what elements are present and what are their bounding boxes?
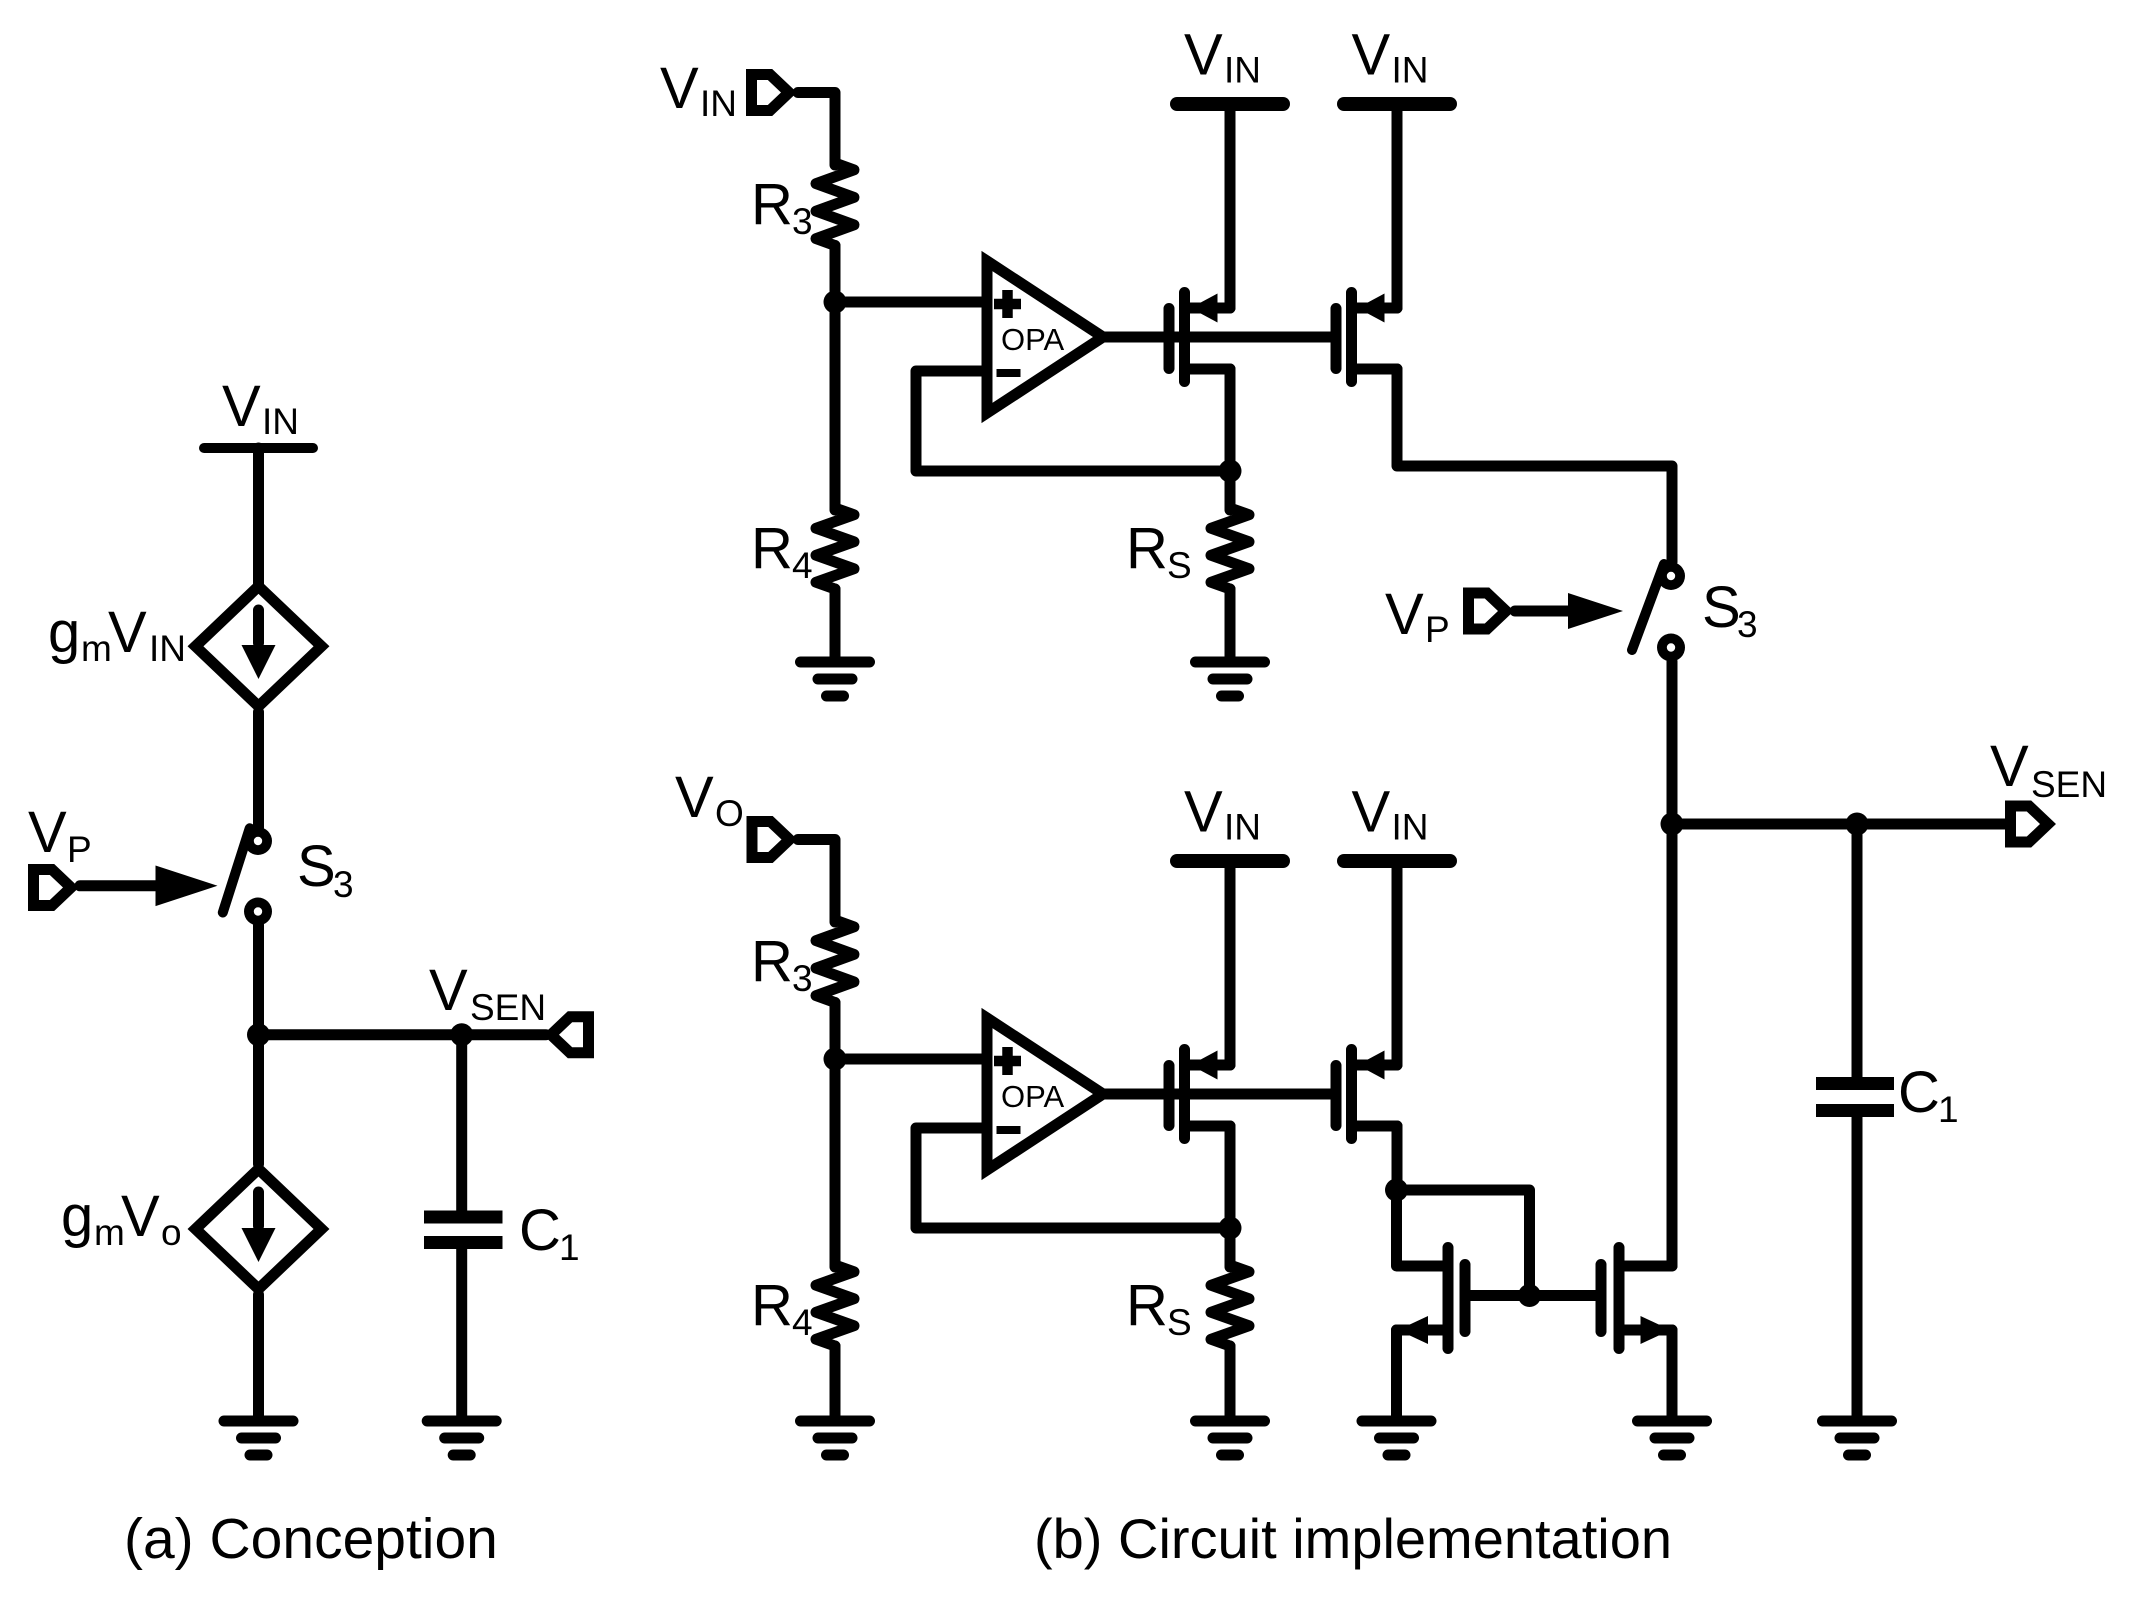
svg-text:P: P	[67, 829, 92, 870]
nmos N2 mirror output (b lower)	[1601, 1248, 1672, 1349]
label S3 (b)	[1702, 575, 1758, 645]
label VIN input port (b upper)	[660, 56, 737, 124]
svg-text:S: S	[1167, 545, 1192, 586]
control arrow VP to S3 (b)	[1515, 593, 1623, 629]
svg-text:IN: IN	[262, 401, 299, 442]
svg-text:3: 3	[333, 864, 354, 905]
svg-text:O: O	[715, 793, 744, 834]
value label C1 (b)	[1898, 1060, 1959, 1130]
svg-text:V: V	[429, 958, 468, 1023]
ground under N2 (b lower)	[1638, 1421, 1707, 1455]
wire M3 drain to RS junction (b lower)	[1225, 1126, 1236, 1228]
svg-text:1: 1	[1938, 1089, 1959, 1130]
wire C1 to ground (b)	[1852, 1116, 1863, 1416]
wire junction to R4 (b upper)	[830, 302, 841, 510]
ground under N1 (b lower)	[1362, 1421, 1431, 1455]
label VP (a)	[28, 800, 92, 870]
wire node VSEN down to NMOS drain (b)	[1667, 824, 1678, 1266]
ground under C1 (a)	[427, 1421, 496, 1455]
ground under RS (b lower)	[1196, 1421, 1265, 1455]
ground under C1 (b)	[1823, 1421, 1892, 1455]
svg-text:R: R	[1126, 1273, 1168, 1338]
wire junction to RS (b upper)	[1225, 471, 1236, 510]
dependent current source gmVo (diamond)	[196, 1169, 322, 1289]
svg-text:V: V	[1184, 780, 1223, 845]
label R4 (b lower)	[751, 1273, 813, 1343]
pmos M2 (b upper)	[1336, 293, 1397, 382]
ground under gmVo (a)	[224, 1421, 293, 1455]
junction R3-R4-opamp (b lower)	[824, 1048, 847, 1071]
label RS (b upper)	[1126, 516, 1192, 586]
resistor R4 (b upper)	[816, 508, 854, 589]
net VIN rail M3 (b lower)	[1177, 854, 1283, 868]
junction node VSEN at C1 (b)	[1846, 813, 1869, 836]
svg-text:g: g	[61, 1184, 93, 1249]
wire N2 source to ground (b lower)	[1667, 1330, 1678, 1416]
svg-text:C: C	[519, 1198, 561, 1263]
wire switch S3 to node VSEN (b)	[1667, 662, 1678, 825]
svg-text:V: V	[660, 56, 699, 121]
wire VIN rail to gmVIN source (a)	[253, 448, 264, 585]
svg-text:V: V	[1352, 780, 1391, 845]
current arrow inside gmVo	[242, 1192, 276, 1262]
net VIN rail M1 (b upper)	[1177, 97, 1283, 111]
ground under RS (b upper)	[1196, 662, 1265, 696]
svg-text:(a) Conception: (a) Conception	[124, 1507, 498, 1571]
pmos M1 (b upper)	[1169, 293, 1230, 382]
svg-text:IN: IN	[1392, 50, 1429, 91]
wire RS to ground (b lower)	[1225, 1346, 1236, 1416]
svg-text:R: R	[751, 929, 793, 994]
junction gate tie (b lower)	[1518, 1284, 1541, 1307]
pmos M3 (b lower)	[1169, 1050, 1230, 1139]
svg-text:4: 4	[792, 545, 813, 586]
switch S3 (b)	[1632, 562, 1685, 662]
svg-text:R: R	[751, 172, 793, 237]
svg-text:V: V	[1352, 23, 1391, 88]
net VIN rail label M3 (b lower)	[1184, 780, 1261, 848]
capacitor C1 (b)	[1816, 1084, 1894, 1111]
svg-text:SEN: SEN	[470, 987, 546, 1028]
svg-text:3: 3	[792, 201, 813, 242]
wire opamp output to gates M1 M2 (b upper)	[1103, 332, 1331, 343]
wire N1 source to ground (b lower)	[1391, 1330, 1402, 1416]
caption (a) Conception	[124, 1507, 498, 1571]
wire VIN rail to M4 source (b lower)	[1392, 861, 1403, 1065]
net VIN supply rail (a)	[204, 443, 313, 453]
control arrow VP to S3 (a)	[80, 866, 218, 907]
ground under R4 (b lower)	[801, 1421, 870, 1455]
port VP input flag (a)	[34, 870, 72, 906]
capacitor C1 (a)	[424, 1217, 503, 1243]
svg-text:OPA: OPA	[1001, 1079, 1064, 1114]
svg-text:IN: IN	[700, 83, 737, 124]
svg-text:IN: IN	[149, 628, 186, 669]
svg-text:S: S	[297, 834, 336, 899]
junction node VSEN left (a)	[247, 1023, 270, 1046]
wire M4 drain to mirror junction (b lower)	[1392, 1126, 1403, 1190]
wire mirror junction to gate tie (b lower)	[1397, 1190, 1530, 1296]
net VIN rail M2 (b upper)	[1344, 97, 1450, 111]
svg-text:(b) Circuit implementation: (b) Circuit implementation	[1034, 1507, 1672, 1570]
wire C1 to ground (a)	[456, 1248, 467, 1416]
value label gmVo	[61, 1184, 182, 1253]
svg-text:V: V	[675, 765, 714, 830]
net VIN rail label M2 (b upper)	[1352, 23, 1429, 91]
svg-text:g: g	[48, 600, 80, 665]
wire junction to opamp plus input (b upper)	[835, 297, 987, 308]
wire VIN rail to M2 source (b upper)	[1392, 104, 1403, 308]
svg-text:V: V	[222, 374, 261, 439]
svg-text:V: V	[28, 800, 67, 865]
svg-text:V: V	[1184, 23, 1223, 88]
wire gmVIN to switch S3 (a)	[253, 712, 264, 828]
label R3 (b upper)	[751, 172, 813, 242]
svg-text:S: S	[1702, 575, 1741, 640]
wire junction to RS (b lower)	[1225, 1228, 1236, 1267]
resistor RS (b upper)	[1211, 508, 1249, 589]
pmos M4 (b lower)	[1336, 1050, 1397, 1139]
wire mirror junction to N1 drain (b lower)	[1397, 1190, 1446, 1266]
svg-text:3: 3	[792, 958, 813, 999]
resistor R3 (b upper)	[816, 163, 854, 246]
junction RS-feedback-M3 (b lower)	[1219, 1217, 1242, 1240]
port VSEN output flag (b)	[2011, 806, 2049, 842]
value label gmVIN	[48, 600, 186, 669]
net VIN supply label (a)	[222, 374, 299, 442]
wire opamp output to gates M3 M4 (b lower)	[1103, 1089, 1331, 1100]
wire node VSEN horizontal (b)	[1672, 819, 2009, 830]
nmos N1 diode-connected (b lower)	[1397, 1248, 1466, 1349]
svg-text:SEN: SEN	[2031, 764, 2107, 805]
svg-text:1: 1	[559, 1227, 580, 1268]
wire RS to ground (b upper)	[1225, 589, 1236, 657]
svg-text:OPA: OPA	[1001, 322, 1064, 357]
feedback wire opamp minus to RS node (b upper)	[916, 371, 1230, 471]
wire VO port to R3 (b lower)	[798, 840, 835, 923]
value label C1 (a)	[519, 1198, 580, 1268]
wire gate tie N1-N2 (b lower)	[1465, 1290, 1601, 1301]
label VSEN (a)	[429, 958, 546, 1028]
svg-text:o: o	[161, 1212, 182, 1253]
svg-text:IN: IN	[1224, 50, 1261, 91]
port VP input flag (b)	[1469, 593, 1507, 629]
label VSEN (b)	[1990, 734, 2107, 805]
wire node VSEN to C1 (b)	[1852, 824, 1863, 1078]
wire VIN port to R3 (b upper)	[798, 93, 835, 166]
svg-text:V: V	[1990, 734, 2029, 799]
junction node VSEN at C1 (a)	[450, 1023, 473, 1046]
wire R3 to junction (b lower)	[830, 1003, 841, 1061]
wire node VSEN horizontal (a)	[259, 1029, 547, 1040]
wire M2 drain to switch S3 (b)	[1397, 369, 1672, 562]
net VIN rail label M1 (b upper)	[1184, 23, 1261, 91]
ground under R4 (b upper)	[801, 662, 870, 696]
svg-text:IN: IN	[1224, 807, 1261, 848]
label R3 (b lower)	[751, 929, 813, 999]
svg-text:V: V	[121, 1184, 160, 1249]
op-amp OPA (b lower)	[987, 1018, 1103, 1170]
svg-text:3: 3	[1737, 604, 1758, 645]
port VO input flag (b lower)	[752, 822, 790, 858]
caption (b) Circuit implementation	[1034, 1507, 1672, 1570]
wire gmVo to ground (a)	[253, 1295, 264, 1416]
junction node VSEN left (b)	[1661, 813, 1684, 836]
wire R3 to junction (b upper)	[830, 246, 841, 304]
junction M4 drain - mirror (b lower)	[1385, 1179, 1408, 1202]
net VIN rail label M4 (b lower)	[1352, 780, 1429, 848]
current arrow inside gmVIN	[242, 610, 276, 679]
port VSEN output flag (a)	[551, 1017, 589, 1053]
wire VIN rail to M1 source (b upper)	[1225, 104, 1236, 308]
label VO input port (b lower)	[675, 765, 744, 834]
junction RS-feedback-M1 (b upper)	[1219, 460, 1242, 483]
op-amp OPA (b upper)	[987, 261, 1103, 413]
svg-text:V: V	[1385, 582, 1424, 647]
wire junction to R4 (b lower)	[830, 1059, 841, 1267]
wire M1 drain to RS junction (b upper)	[1225, 369, 1236, 471]
resistor R3 (b lower)	[816, 920, 854, 1003]
svg-text:R: R	[1126, 516, 1168, 581]
svg-text:V: V	[108, 600, 147, 665]
wire switch S3 to node VSEN (a)	[253, 925, 264, 1164]
svg-text:4: 4	[792, 1302, 813, 1343]
wire junction to opamp plus input (b lower)	[835, 1054, 987, 1065]
resistor RS (b lower)	[1211, 1265, 1249, 1346]
wire node VSEN to C1 (a)	[456, 1035, 467, 1212]
resistor R4 (b lower)	[816, 1265, 854, 1346]
net VIN rail M4 (b lower)	[1344, 854, 1450, 868]
svg-text:S: S	[1167, 1302, 1192, 1343]
svg-text:R: R	[751, 1273, 793, 1338]
svg-text:P: P	[1425, 609, 1450, 650]
label VP (b)	[1385, 582, 1450, 650]
wire VIN rail to M3 source (b lower)	[1225, 861, 1236, 1065]
wire R4 to ground (b lower)	[830, 1346, 841, 1416]
switch S3 (a)	[223, 827, 272, 926]
feedback wire opamp minus to RS node (b lower)	[916, 1128, 1230, 1228]
svg-text:C: C	[1898, 1060, 1940, 1125]
port VIN input flag (b upper)	[752, 75, 790, 111]
junction R3-R4-opamp (b upper)	[824, 291, 847, 314]
dependent current source gmVIN (diamond)	[196, 586, 322, 706]
label RS (b lower)	[1126, 1273, 1192, 1343]
label S3 (a)	[297, 834, 354, 905]
svg-text:IN: IN	[1392, 807, 1429, 848]
svg-text:R: R	[751, 516, 793, 581]
label R4 (b upper)	[751, 516, 813, 586]
wire R4 to ground (b upper)	[830, 589, 841, 657]
